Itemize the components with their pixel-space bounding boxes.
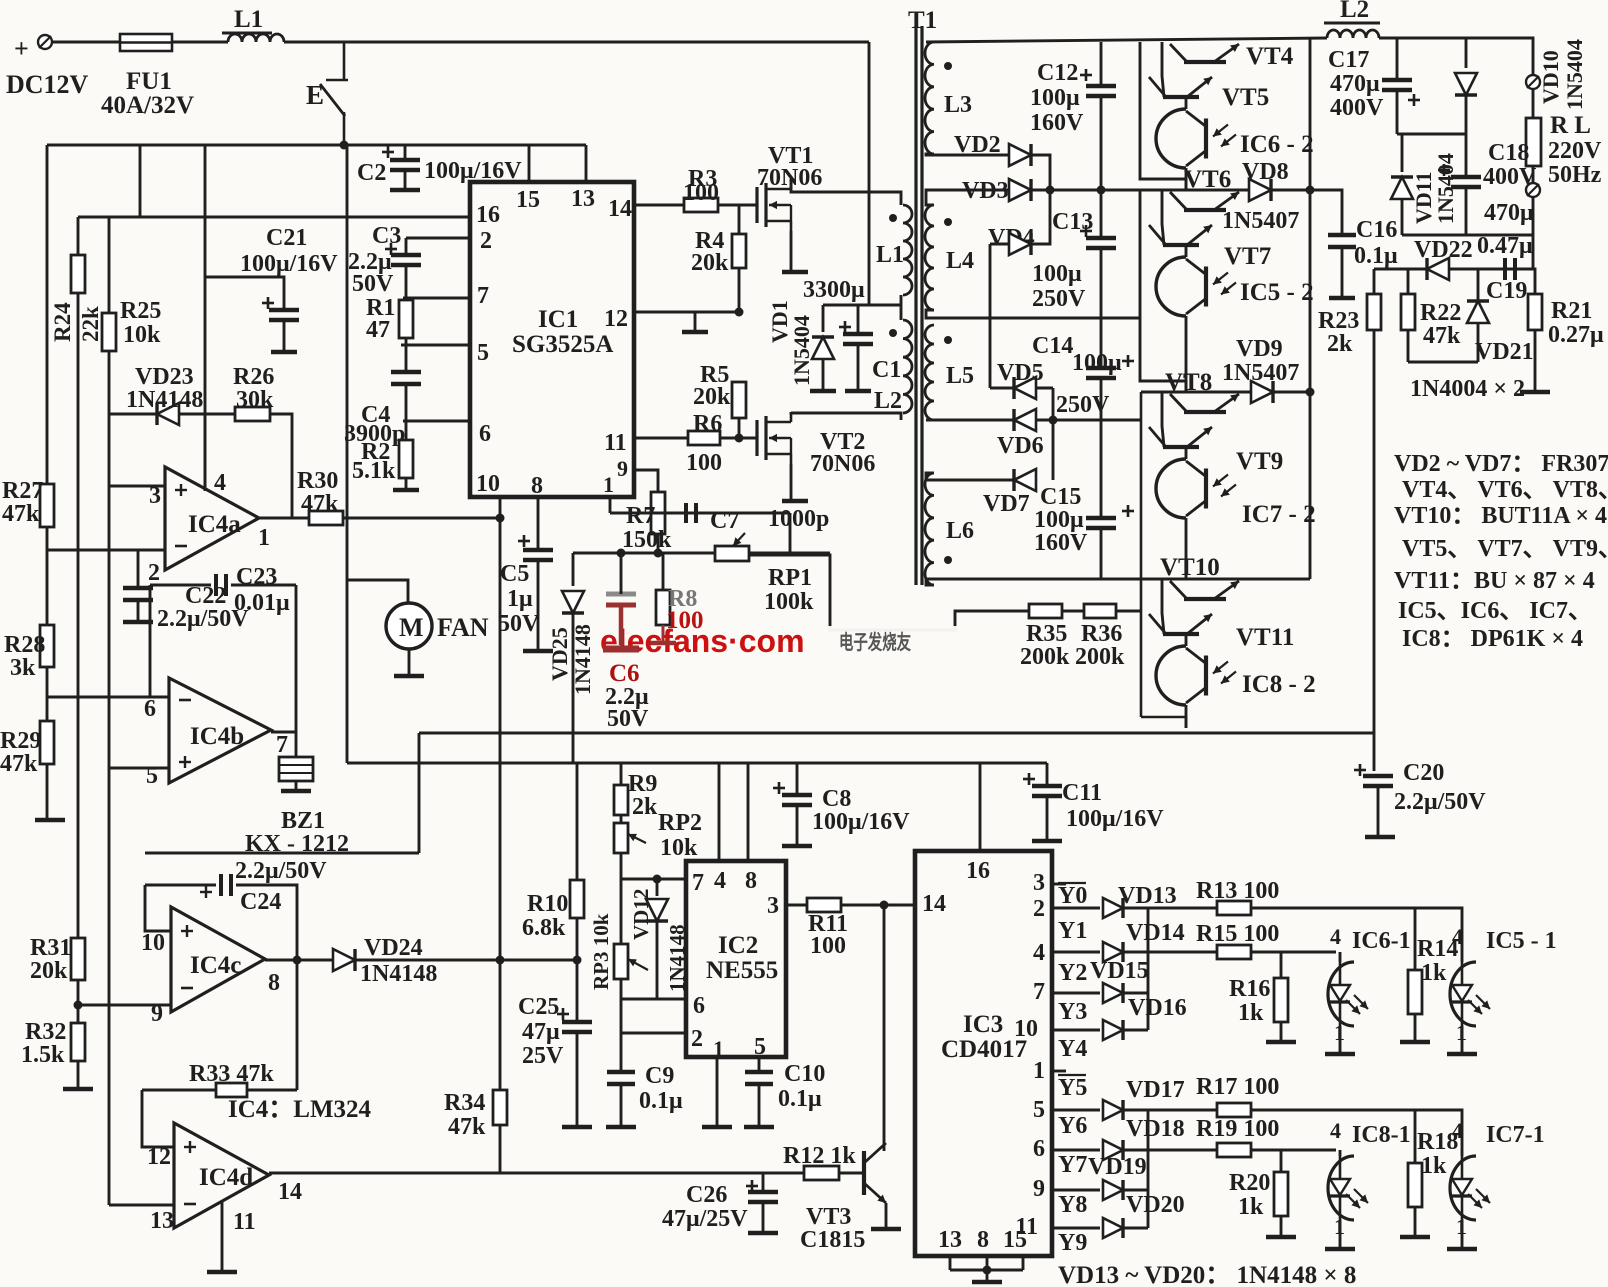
label C13 value2 [1032,286,1086,312]
label R16 value [1238,1000,1264,1026]
wire VD4 anode drop [989,244,992,318]
svg-text:1N4004 × 2: 1N4004 × 2 [1410,376,1525,402]
label IC4d [199,1164,253,1191]
pin 9 IC1 [617,456,628,481]
svg-text:VD5: VD5 [997,360,1044,386]
wire R17 out [1251,1110,1462,1146]
svg-text:11: 11 [604,430,627,456]
svg-text:8: 8 [745,868,757,894]
terminal AC out lower [1526,183,1540,197]
wire pin16 rail [78,216,470,219]
wire R33 right [247,1089,297,1092]
svg-text:Y1: Y1 [1058,918,1087,944]
wire R13 line [1148,907,1217,910]
label R27 value [2,501,40,527]
wire R25 column [108,217,111,313]
bar C16 bottom [1329,296,1355,301]
svg-text:8: 8 [977,1227,989,1253]
svg-text:12: 12 [147,1144,171,1170]
label R23 [1318,308,1359,334]
diode VD12 [646,899,668,921]
label VT2 [820,429,865,455]
label R22 [1420,300,1461,326]
label R21 value [1548,322,1604,348]
svg-text:13: 13 [938,1227,962,1253]
wire VD5 drop [989,318,992,388]
svg-text:VD21: VD21 [1475,339,1534,365]
wire R22 bottom [1407,330,1410,362]
pin1 IC2 [713,1036,724,1061]
wire VT2 source [790,464,793,499]
ground IC7-1 [1447,1247,1477,1252]
dot L1 primary polarity [889,214,897,222]
potentiometer RP2 [614,823,646,853]
label IC6-1 [1352,928,1411,954]
wire R36 to leg rail [1116,610,1141,613]
capacitor C17 [1382,80,1420,106]
junction R7 553 [654,549,663,558]
wire C21 stem [283,320,286,350]
svg-text:IC7-1: IC7-1 [1486,1122,1545,1148]
wire BZ1 lower [295,781,298,789]
label VD18 [1126,1116,1185,1142]
label VT3 type [800,1227,865,1253]
transistor VT4 [1170,44,1239,62]
wire C16 branch [1310,190,1342,235]
wire VD10 column [1465,38,1468,68]
wire pin2 line [406,237,470,240]
wire L6 bottom line [926,579,1310,585]
wire leg1 inner [1162,42,1164,97]
wire VD12 col [656,879,659,896]
wire VD19 line [1052,1189,1100,1192]
ground C20 [1365,835,1395,840]
wire leg1 opto link [1185,97,1188,109]
wire pin2 col [620,999,623,1033]
wire R11 to IC3 [841,904,915,907]
svg-text:5: 5 [1033,1097,1045,1123]
svg-text:1N5404: 1N5404 [789,315,814,386]
ground R18 [1400,1235,1430,1240]
switch E [320,42,348,145]
svg-text:L5: L5 [946,363,974,389]
svg-text:0.1μ: 0.1μ [639,1088,683,1114]
ground IC6-1 [1325,1052,1355,1057]
wire pin7 line [403,297,470,300]
wire leg3 opto out [1185,518,1188,579]
wire C22 stem [137,550,140,588]
pin5 IC2 [754,1034,766,1060]
info line7 [1402,626,1583,652]
svg-text:IC1: IC1 [538,306,578,333]
svg-text:VT10： BUT11A × 4: VT10： BUT11A × 4 [1394,503,1607,529]
ground R32 [63,1087,93,1092]
svg-text:VT6: VT6 [1184,166,1231,193]
label R25 value [123,322,161,348]
wire R20 top [1280,1150,1283,1172]
svg-text:C25: C25 [518,994,559,1020]
wire VD17 out [1124,1109,1148,1112]
svg-text:VD7: VD7 [983,491,1030,517]
wire R15 out [1251,951,1336,954]
capacitor C6 (red) [603,594,639,649]
wire VD21 bottom [1477,323,1480,362]
label BZ1 [281,808,325,834]
watermark elecfans [600,623,805,659]
wire leg1 rail [1140,42,1186,190]
wire IC5-1 top pin [1461,952,1464,962]
wire VD10 lower [1465,95,1468,134]
label R36 value [1075,644,1125,670]
wire VD17 line [1052,1109,1100,1112]
svg-text:R34: R34 [444,1090,485,1116]
wire pin3 line [109,485,165,488]
label KX-1212 [245,831,349,857]
wire x347 column [346,145,349,763]
wire leg2 rail [1140,190,1186,392]
wire VD15 out [1124,992,1148,995]
label VD12 type [665,924,689,992]
svg-text:IC6 - 2: IC6 - 2 [1240,131,1314,158]
wire +12V drop to center tap [869,42,901,305]
wire R25 col mid [108,414,111,486]
dot L5 polarity [944,336,952,344]
optocoupler IC6-1 [1328,962,1368,1026]
ground C2 [390,188,420,193]
label R2 value [352,458,396,484]
ground R16 [1266,1040,1296,1045]
pin3 IC4a [149,483,161,509]
wire diode bus lower [1147,1110,1150,1228]
pin 11 IC1 [604,430,627,456]
wire diode bus upper [1147,908,1150,1030]
label Y2 [1058,960,1087,986]
wire VD1 lower [822,359,825,389]
wire L4 bottom junction line [926,310,1140,318]
wire KX line 853 [145,852,419,855]
wire L1 bar [222,32,272,35]
wire VD25 stem [572,553,575,586]
wire RP2-RP3 [620,879,623,944]
svg-text:10: 10 [1014,1016,1038,1042]
wire C20 lower [1377,786,1380,835]
resistor R7 [651,492,665,534]
label C17 value2 [1330,95,1384,121]
wire VD5 to 250V node [1052,388,1055,480]
wire pin8 stub [537,497,540,550]
pin 10 IC3 [1014,1016,1038,1042]
bar VD1 bottom [810,389,836,394]
label 40A/32V [101,92,194,119]
resistor R14 [1408,970,1422,1014]
wire C17 lower [1396,90,1399,134]
transistor VT10 [1170,581,1239,599]
label C17 [1328,47,1369,73]
label C3 value2 [352,271,394,297]
resistor R26 [235,407,270,421]
wire link VCC to pin16 rail [139,145,142,217]
label 1N4004x2 [1410,376,1525,402]
ground C5 [523,649,553,654]
label R32 value [21,1042,65,1068]
wire C17 column [1396,38,1399,80]
wire R33 loop [296,960,299,1090]
svg-text:IC5 - 1: IC5 - 1 [1486,928,1557,954]
wire pin8 stub 555 [747,763,750,861]
svg-text:C9: C9 [645,1063,674,1089]
wire R35 R36 link [1062,610,1084,613]
label R31 [30,935,71,961]
resistor R33 [216,1083,247,1097]
diode VD21 [1467,301,1489,323]
diode VD22 [1427,258,1449,280]
wire R6 to VT2 gate [720,437,757,440]
svg-text:Y3: Y3 [1058,999,1087,1025]
resistor R11 [807,898,841,912]
capacitor 0.47u [1505,258,1515,280]
label R4 [695,228,724,254]
resistor R25 [102,313,116,351]
svg-text:1k: 1k [1238,1194,1264,1220]
pin1 IC8-1 [1334,1214,1345,1239]
svg-text:16: 16 [966,858,990,884]
label VD14 [1126,920,1185,946]
svg-text:VD6: VD6 [997,433,1044,459]
svg-text:10: 10 [141,930,165,956]
wire L2 to terminal [1379,38,1533,75]
ground R21 [1520,390,1550,395]
capacitor C1 [839,321,873,344]
op-amp IC4b [169,678,271,783]
bar C21 bottom [271,350,297,355]
wire C1 stem [857,305,860,334]
resistor R10 [570,880,584,918]
wire R19 out [1251,1149,1336,1152]
wire VD13 line [1052,907,1100,910]
svg-text:100: 100 [683,180,719,206]
wire top output rail [926,38,1327,42]
wire IC4c out [265,959,334,962]
pin11 IC4d [233,1209,256,1235]
wire pin9 line [634,470,658,492]
label VD24 type [360,961,437,987]
svg-text:C18: C18 [1488,140,1529,166]
capacitor C10 [745,1072,773,1084]
pin4 IC4a [214,470,226,496]
wire R24 down [77,293,80,938]
svg-text:250V: 250V [1032,286,1086,312]
wire C13 lower [1100,248,1103,318]
wire VD4 out [1031,190,1050,244]
svg-text:1μ: 1μ [507,586,533,612]
label R20 value [1238,1194,1264,1220]
pin 14 IC1 [608,196,632,222]
wire L1-L2 link [900,295,903,320]
svg-text:1N5404: 1N5404 [1562,39,1587,110]
resistor R22 [1401,294,1415,330]
label C23 [236,564,277,590]
label R5 value [693,384,731,410]
label R1 value [366,317,390,343]
pin4 IC6-1 [1330,924,1341,949]
wire L1 to T1 feed [284,41,869,44]
label C4 value [344,421,405,447]
capacitor C12 [1080,69,1116,96]
pin 1 IC3 [1033,1058,1045,1084]
svg-text:C11: C11 [1062,780,1102,806]
resistor R17 [1217,1103,1251,1117]
wire leg1 opto out [1185,168,1188,190]
label 250V node [1056,392,1110,418]
svg-text:IC2: IC2 [718,932,758,959]
wire R23 top [1373,269,1376,294]
label R26 value [236,387,274,413]
resistor R24 [71,255,85,293]
label C8 [822,786,851,812]
opamp IC4d signs [184,1141,196,1204]
label VD23 [135,364,194,390]
wire R18 top [1414,1110,1417,1163]
optocoupler IC5-2 [1156,257,1236,316]
label C20 [1403,760,1444,786]
wire R4 to pin12 [738,268,741,312]
svg-text:C19: C19 [1486,278,1527,304]
resistor R2 [399,440,413,478]
svg-text:VD3: VD3 [962,178,1009,204]
pin2 IC4a [148,560,160,586]
wire C15 column [1100,420,1103,518]
wire C3 stem [405,238,408,255]
ground IC5-1 [1447,1052,1477,1057]
info line1 [1394,451,1608,477]
wire R21 bottom [1534,330,1537,390]
wire R7 lower [657,534,660,553]
svg-text:L2: L2 [1340,0,1369,23]
wire leg4 inner [1162,579,1164,634]
IC U3 CD4017 box [915,851,1052,1256]
svg-text:1N5407: 1N5407 [1222,208,1299,234]
wire L4 top to VD3 line [926,190,1008,205]
svg-text:R6: R6 [693,411,722,437]
label C15 [1040,484,1081,510]
svg-text:VD14: VD14 [1126,920,1185,946]
wire IC3 gnd stub [986,1270,989,1280]
svg-text:20k: 20k [693,384,731,410]
diode VD19 [1103,1180,1123,1200]
wire VD15 line [1052,992,1100,995]
pin 10 IC1 [476,471,500,497]
wire R10 lower [576,918,579,1022]
label R18 value [1421,1153,1447,1179]
label VD19 [1088,1154,1147,1180]
wire L3 bottom to VD2 [926,154,1008,155]
label C8 value [812,809,910,835]
ground IC3 [972,1280,1002,1285]
label Y3 [1058,999,1087,1025]
label RP1 value [764,589,814,615]
label VD22 [1414,237,1473,263]
label C13 [1052,209,1093,235]
svg-text:C1815: C1815 [800,1227,865,1253]
label L3 secondary [944,92,972,118]
label 3300μ [803,277,865,303]
svg-text:R21: R21 [1551,298,1592,324]
svg-text:5: 5 [754,1034,766,1060]
svg-text:C3: C3 [372,223,401,249]
resistor R4 [732,234,746,268]
wire VCC rail [47,144,586,147]
svg-text:13: 13 [150,1208,174,1234]
wire x109 col down [108,486,111,768]
pin 2 IC3 [1033,896,1045,922]
svg-text:1.5k: 1.5k [21,1042,65,1068]
wire L3 top to top rail [926,41,934,44]
wire sub bottom line [1408,361,1478,364]
wire pin10 column [499,497,502,1173]
svg-text:DC12V: DC12V [6,70,89,99]
svg-text:2k: 2k [1327,331,1353,357]
svg-text:VT9: VT9 [1236,448,1283,475]
label VD21 [1475,339,1534,365]
junction R30 pin10 [496,514,505,523]
label C13 value1 [1032,261,1082,287]
pin 15 IC1 [516,187,540,213]
wire leg3 opto link [1185,447,1188,459]
wire pin2 line 555 [621,1032,686,1035]
junction C12 node190 [1097,186,1106,195]
wire RP line 553 [573,552,830,555]
wire pin5 line [401,344,470,347]
overline Y0 [1058,882,1086,884]
svg-text:R L: R L [1550,112,1591,139]
svg-text:VT5、 VT7、 VT9、: VT5、 VT7、 VT9、 [1402,536,1608,562]
svg-text:E: E [306,80,324,110]
wire leg4 opto link [1185,634,1188,646]
label VD9 type [1222,360,1299,386]
label C14 value1 [1072,350,1122,376]
label C19 [1486,278,1527,304]
wire R12 to VT3 [839,1172,864,1175]
junction C6 553 [617,549,626,558]
label IC7-1 [1486,1122,1545,1148]
svg-text:IC4d: IC4d [199,1164,253,1191]
wire R18 lower [1414,1207,1417,1235]
wire pin9 line [78,1004,171,1007]
svg-text:2: 2 [480,228,492,254]
junction VD24 x577 [573,956,582,965]
svg-text:R33 47k: R33 47k [189,1061,274,1087]
svg-text:R15 100: R15 100 [1196,921,1279,947]
svg-text:L4: L4 [946,248,974,274]
wire pin6 line [47,696,169,699]
resistor R20 [1274,1172,1288,1216]
wire pin7 line [621,878,686,881]
pin3 IC2 [767,893,779,919]
svg-text:100μ: 100μ [1032,261,1082,287]
label C12 value2 [1030,110,1084,136]
svg-text:L6: L6 [946,518,974,544]
terminal AC out upper [1526,75,1540,89]
label C10 value [778,1086,822,1112]
transistor VT6 [1170,192,1239,210]
wire C23 line [150,584,211,587]
pin8 IC3 [977,1227,989,1253]
pin 5 IC3 [1033,1097,1045,1123]
pin1 IC4a [258,525,270,551]
svg-text:R20: R20 [1229,1170,1270,1196]
diode VD24 [333,949,355,971]
inductor L5 secondary [925,325,934,420]
